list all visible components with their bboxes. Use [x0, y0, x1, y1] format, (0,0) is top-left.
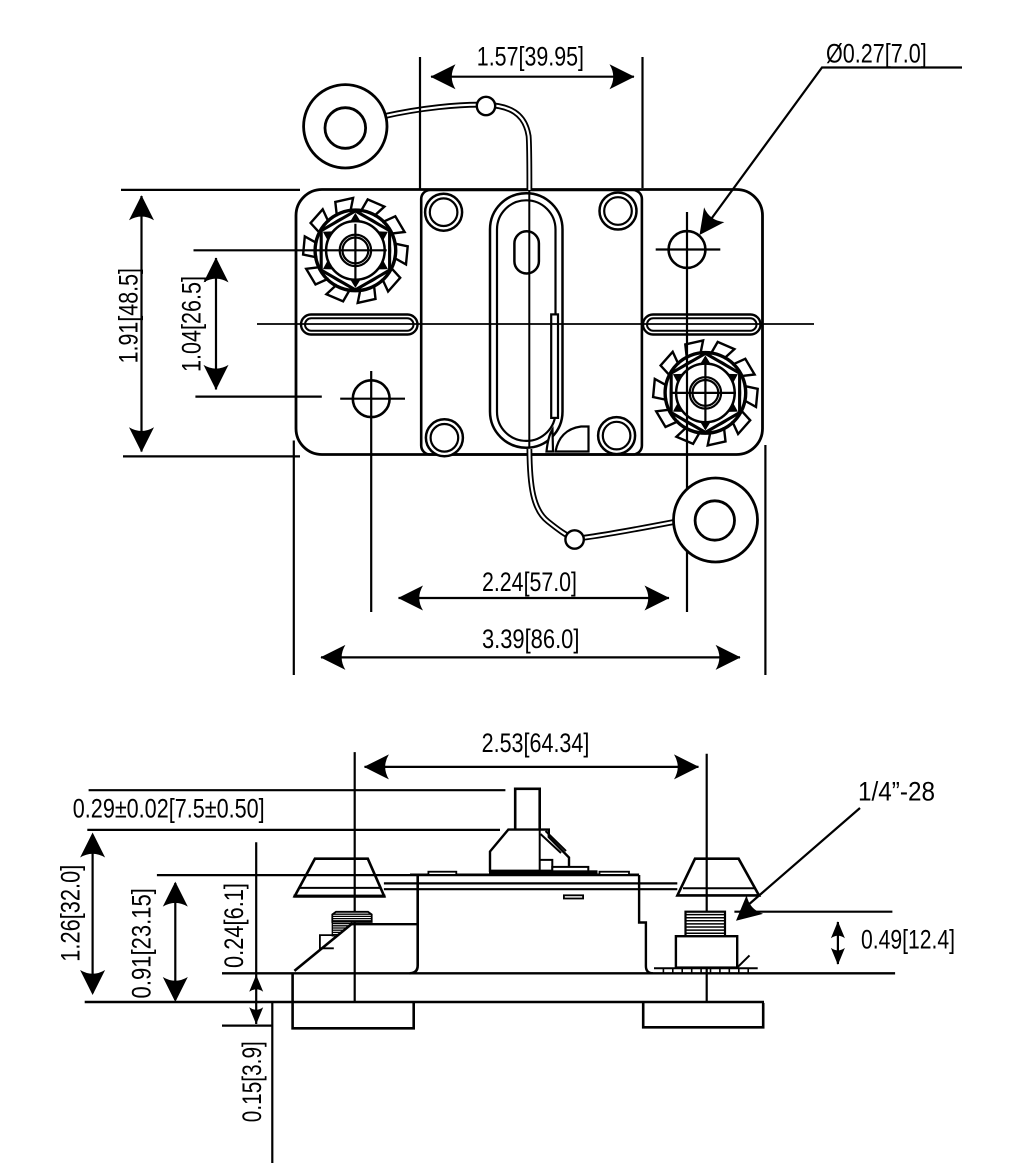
0.49 dimension line [837, 922, 839, 964]
dia 0.27 leader line [702, 68, 962, 232]
mounting plane line B [85, 1001, 764, 1004]
lever bar [551, 314, 558, 418]
bottom cable ball [565, 530, 583, 548]
right stud crosshair horizontal [672, 392, 736, 394]
left stud crosshair horizontal / 1.04 top extension [194, 249, 387, 251]
nut base diagonal [737, 955, 749, 967]
arrow 1.26 bottom [80, 970, 105, 995]
heavy seat band under button [489, 870, 598, 875]
bottom grommet ring [674, 478, 758, 562]
1.04 extension bottom [195, 396, 321, 398]
svg-text:1.57[39.95]: 1.57[39.95] [477, 41, 584, 71]
slot centerline / cable inside slot [528, 190, 530, 448]
arrow dia0.27 leader [689, 207, 724, 242]
screw hole top-left [425, 194, 462, 231]
base plate top line A / 0.24 & 0.49 extension [222, 972, 895, 974]
plate tab left [428, 872, 456, 875]
1/4-28 leader [740, 808, 861, 913]
2.53 dimension line [365, 766, 699, 768]
0.91 dimension line [174, 883, 176, 1000]
extension line 1.91 top [121, 189, 300, 191]
svg-text:0.24[6.1]: 0.24[6.1] [219, 883, 249, 968]
trip flag large fin [556, 427, 589, 452]
right terminal stud with lock washer and hex nut [653, 340, 758, 445]
left bracket slope [294, 924, 351, 971]
left bracket step [320, 935, 334, 948]
svg-text:1/4”-28: 1/4”-28 [858, 777, 935, 807]
2.53 extension left / left stud centerline [354, 752, 356, 1002]
arrow 1.91 top [129, 195, 154, 220]
svg-text:2.24[57.0]: 2.24[57.0] [482, 567, 577, 597]
top cable (tube) [383, 105, 530, 190]
0.29 extension top (button top level) [89, 789, 506, 791]
1.57 extension right [641, 57, 643, 188]
svg-text:2.53[64.34]: 2.53[64.34] [482, 728, 590, 758]
mounting hole left [353, 380, 390, 417]
right foot [643, 1002, 763, 1027]
left bracket shelf line [351, 923, 417, 925]
arrow 0.15 down [249, 1007, 263, 1024]
arrow 2.53 right [674, 754, 699, 779]
arrow 1.04 top [204, 257, 229, 282]
button keyway lines [539, 830, 541, 871]
mounting hole right crosshair / 2.24 right extension [656, 248, 721, 250]
arrow 2.24 left [398, 586, 423, 611]
mounting hole left crosshair [340, 398, 405, 400]
svg-text:0.91[23.15]: 0.91[23.15] [127, 888, 157, 998]
svg-text:1.04[26.5]: 1.04[26.5] [176, 276, 206, 372]
0.24/0.15 dimension line [255, 842, 257, 1024]
arrow 1.91 bottom [129, 427, 154, 452]
left cover heavy bottom edge [294, 895, 386, 898]
arrow 0.49 down [831, 948, 845, 965]
lever handle small obround [514, 231, 539, 273]
blade bottom line [384, 888, 677, 890]
top grommet ring [304, 85, 387, 168]
svg-text:Ø0.27[7.0]: Ø0.27[7.0] [826, 39, 927, 69]
breaker body outline (top view) [296, 190, 763, 455]
arrow 3.39 right [716, 645, 741, 670]
left stud crosshair vertical [354, 224, 356, 283]
case left edge [410, 875, 418, 973]
0.91 extension / line crossing left cover [157, 874, 410, 876]
right stud crosshair vertical [704, 357, 706, 429]
left terminal cover [295, 859, 385, 897]
top cable ball [477, 97, 495, 115]
long extension below left foot [271, 1002, 273, 1163]
arrow 0.91 top [163, 882, 188, 907]
reset button block [490, 830, 569, 871]
1.57 dimension line [431, 76, 634, 78]
arrow 2.24 right [645, 586, 670, 611]
case right edge with step [639, 875, 653, 973]
right terminal cover [677, 859, 759, 896]
line C (0.15 lower reference) [222, 1024, 272, 1026]
right side slot outer [643, 315, 761, 335]
button base divider [540, 860, 553, 871]
svg-text:1.91[48.5]: 1.91[48.5] [114, 268, 144, 363]
0.29 extension bottom [87, 829, 500, 831]
1.26 dimension line [91, 835, 93, 993]
lever slot outer obround [490, 193, 563, 448]
left side slot inner [305, 318, 414, 330]
arrow 0.49 up [831, 921, 845, 938]
plate tab right [600, 872, 630, 875]
top plate edge [410, 874, 639, 877]
svg-text:0.49[12.4]: 0.49[12.4] [861, 925, 955, 955]
right side slot inner [647, 318, 757, 330]
left stud thread upper block (side view) [332, 912, 371, 922]
svg-text:0.15[3.9]: 0.15[3.9] [237, 1041, 267, 1122]
screw hole bottom-right [598, 417, 635, 454]
right stud thread (side view) [686, 912, 726, 937]
1.04 dimension line [215, 258, 217, 390]
screw hole bottom-left [426, 419, 463, 456]
center section rectangle [421, 190, 642, 455]
bottom cable (tube) [529, 449, 674, 539]
arrow 1.57 right [610, 64, 635, 89]
2.53 extension right / right stud centerline [706, 754, 708, 1002]
horizontal centerline of body [257, 323, 814, 325]
serrated washer strip [654, 967, 758, 969]
svg-text:0.29±0.02[7.5±0.50]: 0.29±0.02[7.5±0.50] [73, 794, 265, 824]
lever slot inner obround [497, 200, 556, 441]
small tab below plate [564, 895, 583, 898]
svg-text:3.39[86.0]: 3.39[86.0] [482, 624, 580, 654]
mounting hole right (dia 0.27) [669, 231, 706, 268]
right stud nut block [676, 936, 737, 967]
1.91 dimension line [140, 196, 142, 452]
arrow 2.53 left [364, 754, 389, 779]
arrow 1.04 bottom [204, 365, 229, 390]
3.39 extension right [764, 445, 766, 675]
svg-text:1.26[32.0]: 1.26[32.0] [56, 865, 86, 962]
arrow 1/4-28 leader [728, 895, 763, 930]
3.39 dimension line [321, 656, 740, 658]
extension line 1.91 bottom [123, 455, 300, 457]
left stud thread lower tail [332, 922, 351, 936]
3.39 extension left [293, 441, 295, 676]
reset button stem [515, 789, 540, 830]
arrow 3.39 left [320, 645, 345, 670]
arrow 1.26 top [80, 833, 105, 858]
arrow 0.91 bottom [163, 977, 188, 1002]
left foot [293, 973, 414, 1028]
trip flag small fin [547, 430, 554, 452]
blade top line [384, 882, 677, 884]
latch plate [552, 867, 588, 873]
arrow 1.57 left [431, 64, 456, 89]
left side slot outer [301, 315, 418, 335]
arrow 0.24 up [249, 975, 263, 992]
screw hole top-right [600, 193, 637, 230]
1.57 extension left [419, 57, 421, 190]
0.49 extension top [734, 911, 892, 913]
2.24 dimension line [399, 597, 670, 599]
left terminal stud with lock washer and hex nut [303, 198, 408, 303]
